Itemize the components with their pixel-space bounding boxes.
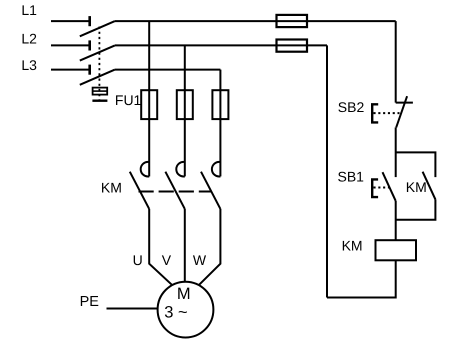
fuse FU1 phase B wire through — [184, 90, 186, 119]
wire SB1 to coil — [395, 201, 397, 240]
svg-text:SB1: SB1 — [338, 168, 365, 184]
wire phase C to KM contact — [219, 119, 221, 176]
svg-text:L2: L2 — [21, 30, 37, 46]
wire branch to KM aux (top) — [396, 152, 436, 177]
fuse FU1 phase C wire through — [219, 90, 221, 119]
switch QS mechanical link (dotted) — [98, 27, 100, 100]
KM main contact B fixed arc — [176, 162, 185, 177]
svg-text:KM: KM — [101, 179, 122, 195]
svg-text:KM: KM — [342, 238, 363, 254]
wire L2 input — [51, 44, 90, 46]
svg-text:L1: L1 — [21, 2, 37, 18]
pushbutton SB2 blade (NC) — [396, 96, 407, 127]
switch QS actuator box — [93, 88, 108, 95]
wire control right rail down to SB2 — [395, 21, 397, 103]
switch QS pole 1 blade — [80, 21, 115, 36]
fuse FU1 phase B body — [177, 90, 193, 119]
KM main contact C fixed arc — [212, 162, 221, 177]
wire L3 input — [51, 69, 90, 71]
motor M1 body — [158, 282, 214, 338]
wire phase A to motor — [149, 209, 172, 285]
wire phase B top (L2 to left rail corner) — [115, 44, 327, 46]
svg-text:FU1: FU1 — [115, 92, 142, 108]
coil KM body — [376, 240, 417, 260]
svg-text:KM: KM — [406, 179, 427, 195]
svg-text:U: U — [133, 252, 143, 268]
svg-text:L3: L3 — [21, 57, 37, 73]
fuse FU1 phase A wire through — [148, 90, 150, 119]
wire phase B to KM contact — [184, 119, 186, 176]
wire control left rail — [326, 45, 328, 297]
pushbutton SB1 link (dotted) — [374, 187, 390, 189]
fuse FU1 phase A body — [141, 90, 157, 119]
fuse FU1 phase C body — [212, 90, 228, 119]
KM main contact A blade — [130, 172, 149, 209]
KM main contact A fixed arc — [141, 162, 150, 177]
fuse FU2 upper body (control fuse on L1) — [277, 15, 308, 27]
wire L1 input — [51, 20, 90, 22]
wire SB2 to SB1 — [395, 127, 397, 177]
pushbutton SB2 link (dotted) — [374, 112, 400, 114]
switch QS pole 2 fixed contact — [88, 40, 91, 50]
switch QS pole 2 blade — [80, 45, 115, 60]
svg-text:V: V — [162, 252, 172, 268]
switch QS actuator bar — [92, 99, 107, 101]
switch QS pole 3 fixed contact — [88, 65, 91, 75]
wire phase A top (L1 to control corner) — [115, 20, 396, 22]
pushbutton SB2 fixed seat — [396, 102, 413, 104]
svg-text:SB2: SB2 — [338, 99, 365, 115]
pushbutton SB1 blade (NO) — [383, 172, 396, 201]
svg-text:W: W — [193, 252, 207, 268]
wire phase B to motor — [184, 209, 186, 282]
svg-text:PE: PE — [80, 294, 100, 310]
wire phase C drop to FU1 — [219, 70, 221, 91]
wire coil to bottom rail — [327, 260, 396, 297]
pushbutton SB1 cap — [372, 179, 378, 197]
wire phase B drop to FU1 — [184, 45, 186, 90]
svg-text:M: M — [177, 285, 191, 303]
wire phase A drop to FU1 — [148, 21, 150, 90]
svg-text:3 ~: 3 ~ — [164, 304, 187, 322]
pushbutton SB2 cap — [372, 104, 378, 122]
wire PE to motor — [107, 308, 158, 310]
wire phase A to KM contact — [148, 119, 150, 176]
KM auxiliary contact blade (NO) — [423, 172, 436, 200]
wire phase C to motor — [199, 209, 221, 285]
KM main contact B blade — [165, 172, 184, 209]
wire KM aux bottom — [396, 199, 436, 219]
wire phase C top (L3) — [115, 69, 220, 71]
switch QS pole 1 fixed contact — [88, 16, 91, 26]
fuse FU2 lower body (control fuse on L2) — [277, 40, 308, 52]
KM main contact C blade — [201, 172, 220, 209]
switch QS pole 3 blade — [80, 70, 115, 85]
KM main contacts link (dashed) — [139, 191, 212, 193]
